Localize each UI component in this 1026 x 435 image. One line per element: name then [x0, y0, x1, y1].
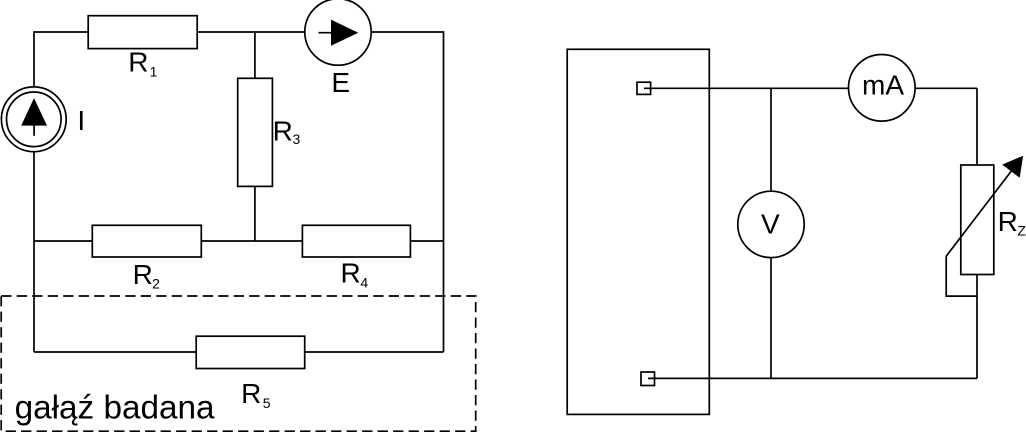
current source I	[1, 87, 66, 152]
label R1	[128, 47, 157, 80]
resistor R2	[92, 225, 201, 257]
svg-text:5: 5	[263, 395, 271, 411]
variable resistor Rz	[961, 165, 994, 275]
terminal square bottom	[641, 372, 655, 386]
wire R1 right lead to E source	[197, 31, 305, 33]
wire Rz bottom to bottom-right corner	[976, 275, 978, 379]
measured device box	[567, 49, 709, 414]
svg-text:mA: mA	[862, 70, 904, 101]
svg-text:V: V	[761, 209, 780, 240]
label R5	[241, 378, 271, 411]
Rz wiper tail to bottom lead	[946, 256, 977, 296]
resistor R5	[196, 336, 305, 368]
svg-text:R: R	[341, 258, 361, 289]
svg-text:R: R	[133, 259, 153, 290]
label Rz	[998, 206, 1026, 239]
Rz wiper arrow	[946, 156, 1023, 257]
wire E to top-right corner, down to bottom wire	[371, 32, 443, 352]
voltage source E	[305, 0, 371, 65]
svg-text:4: 4	[360, 274, 368, 290]
bottom wire left segment	[34, 351, 196, 353]
svg-text:R: R	[998, 206, 1018, 237]
wire current source bottom down to bottom-left corner	[33, 152, 35, 352]
middle wire center segment	[201, 240, 302, 242]
wire from current source top to R1 left lead	[34, 32, 88, 87]
wire mA to top-right corner	[915, 87, 977, 89]
wire V branch bottom	[770, 258, 772, 379]
svg-text:I: I	[77, 105, 85, 136]
label R3	[273, 115, 301, 147]
wire node to R3 top	[254, 32, 256, 78]
label R4	[341, 258, 369, 291]
middle wire left segment	[34, 240, 92, 242]
wire R3 bottom to middle wire	[254, 186, 256, 241]
svg-text:Z: Z	[1017, 223, 1026, 239]
bottom wire terminal to corner	[648, 377, 977, 379]
resistor R3	[238, 78, 273, 186]
middle wire right segment	[410, 240, 443, 242]
bottom wire right segment	[305, 351, 444, 353]
svg-text:1: 1	[150, 64, 158, 80]
svg-text:R: R	[241, 378, 261, 409]
label R2	[133, 259, 161, 292]
svg-text:2: 2	[152, 276, 160, 292]
voltmeter V	[738, 191, 804, 257]
svg-text:R: R	[128, 47, 148, 78]
svg-text:gałąź badana: gałąź badana	[15, 390, 215, 427]
svg-text:3: 3	[293, 131, 301, 147]
svg-text:E: E	[331, 67, 350, 98]
ammeter mA	[849, 55, 916, 122]
terminal square top	[637, 82, 651, 94]
resistor R1	[88, 16, 197, 49]
wire corner down to Rz top	[976, 88, 978, 165]
resistor R4	[302, 225, 410, 257]
dashed box gałąź badana	[1, 296, 476, 431]
wire top terminal to mA meter	[644, 87, 849, 89]
wire V branch top	[770, 88, 772, 191]
svg-text:R: R	[273, 115, 293, 146]
